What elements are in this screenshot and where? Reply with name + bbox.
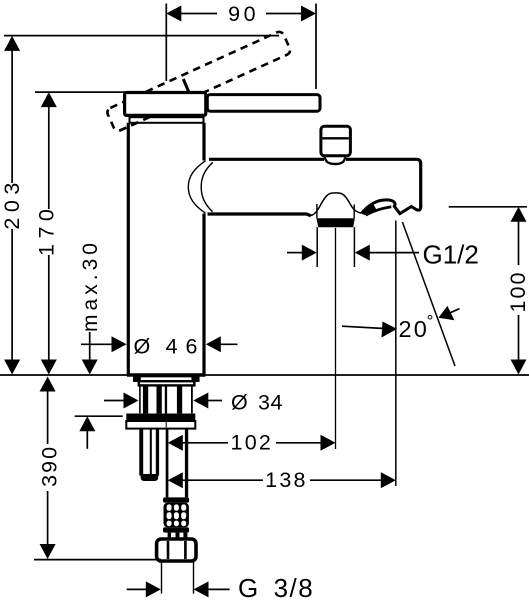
20 degree arrow left xyxy=(342,322,397,338)
dimension 390 xyxy=(37,377,61,560)
svg-text:203: 203 xyxy=(0,177,24,229)
svg-text:90: 90 xyxy=(228,2,259,26)
dimension 203 xyxy=(0,36,24,375)
dimension max. 30 xyxy=(79,239,102,374)
dashed handle joint tick xyxy=(183,79,189,93)
svg-text:390: 390 xyxy=(37,445,61,487)
aerator bump curve xyxy=(311,193,362,216)
dimension 203 extension line top xyxy=(4,35,279,37)
dimension 138 xyxy=(168,468,396,492)
handle lever (solid, horizontal) xyxy=(207,95,320,112)
spout outlet curl outer arc xyxy=(362,200,396,213)
dashed handle (raised position) xyxy=(106,30,292,132)
svg-text:3/8: 3/8 xyxy=(274,573,315,601)
dimension 102 xyxy=(168,431,336,455)
max.30 lower reference line and up arrow xyxy=(75,416,123,449)
body column right edge upper xyxy=(202,123,205,161)
svg-text:170: 170 xyxy=(35,204,59,256)
svg-text:20: 20 xyxy=(399,316,430,342)
cartridge ring xyxy=(130,117,204,123)
svg-text:100: 100 xyxy=(506,271,529,313)
body column right edge lower xyxy=(202,214,205,375)
diverter knob xyxy=(321,126,351,156)
svg-text:max.30: max.30 xyxy=(79,239,102,332)
base under-plate xyxy=(134,377,199,382)
spout top edge xyxy=(209,159,421,207)
handle block xyxy=(125,93,206,116)
spout right underside xyxy=(394,204,421,214)
dimension Ø34 xyxy=(104,391,283,415)
svg-text:34: 34 xyxy=(258,391,283,415)
svg-text:°: ° xyxy=(427,312,434,331)
threaded shank xyxy=(140,385,192,413)
G 1/2 dimension xyxy=(287,240,479,270)
dimension 100 extension line xyxy=(449,206,527,208)
baseline (mounting surface) xyxy=(0,374,529,376)
spout outlet curl inner arc xyxy=(366,207,392,215)
knob neck xyxy=(325,157,346,164)
dashed handle lower edge over ring xyxy=(120,116,153,131)
body column left edge xyxy=(127,123,130,374)
dimension 170 xyxy=(35,92,59,374)
aerator centerline xyxy=(335,228,337,449)
spout outlet vertical reference line xyxy=(395,221,397,487)
spout/column intersection inner arc xyxy=(201,162,213,211)
G 3/8 extension lines xyxy=(161,561,163,594)
hose upper collar xyxy=(163,497,189,502)
spout bottom edge left part xyxy=(208,214,311,216)
20 degree slant line xyxy=(402,222,455,366)
mounting nut xyxy=(126,414,195,429)
dimension 170 extension line top xyxy=(35,91,126,93)
svg-text:46: 46 xyxy=(166,335,206,359)
svg-text:138: 138 xyxy=(265,468,307,492)
dimension Ø46 xyxy=(81,335,238,359)
svg-text:G1/2: G1/2 xyxy=(423,240,479,270)
supply pipe xyxy=(166,429,169,498)
aerator black ring xyxy=(316,218,354,227)
svg-text:G: G xyxy=(238,573,258,601)
dimension G 3/8 xyxy=(127,573,315,601)
svg-text:Ø: Ø xyxy=(231,391,248,415)
body column bottom xyxy=(127,373,206,376)
hose end fitting xyxy=(168,533,188,539)
spout outlet blob xyxy=(361,204,376,215)
hose lower collar xyxy=(163,527,189,532)
bottom nut xyxy=(157,539,196,561)
dimension 100 xyxy=(506,207,529,375)
spout/column intersection outer arc xyxy=(188,161,205,213)
20 degree arrow right xyxy=(438,306,459,320)
390 bottom reference line xyxy=(34,559,161,561)
escutcheon xyxy=(139,381,195,385)
svg-text:Ø: Ø xyxy=(134,335,151,359)
aerator cylinder edges / G1/2 extension lines xyxy=(316,227,318,267)
hose braid xyxy=(164,503,189,528)
threaded stud xyxy=(139,429,159,481)
aerator cylinder side lines inside bump xyxy=(316,204,318,218)
dimension 90 xyxy=(166,2,316,89)
svg-text:102: 102 xyxy=(231,431,273,455)
